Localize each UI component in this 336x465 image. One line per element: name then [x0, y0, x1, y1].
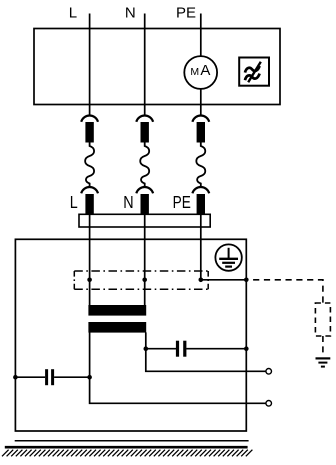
connector bottom L: plug pin [85, 194, 93, 214]
connector top PE: plug pin [197, 122, 205, 143]
wire L (supply drop) [89, 14, 91, 117]
connector bottom PE: plug pin [197, 194, 205, 214]
impedance Z (dashed rectangle) [315, 303, 330, 336]
transformer T1 secondary winding [88, 322, 146, 333]
connector top L: socket arc [81, 116, 98, 122]
connector top N: plug pin [141, 122, 149, 143]
svg-text:PE: PE [173, 193, 191, 212]
dashed wire Z to earth [322, 336, 324, 356]
svg-text:N: N [125, 5, 136, 22]
wire PE (strip to earth node) [200, 214, 202, 280]
wire capacitor C1 branch left part [15, 376, 45, 378]
wire PE to enclosure wall [201, 279, 247, 281]
earth plane hatching [2, 450, 252, 457]
junction dot N at screen [142, 278, 147, 283]
dashed earth connection (external) [249, 280, 323, 303]
transformer T1 primary winding [88, 305, 146, 316]
svg-text:L: L [70, 194, 78, 213]
capacitor C2 plates [178, 341, 185, 357]
output terminal upper [266, 369, 272, 375]
wire capacitor C2 branch left part [146, 348, 177, 350]
junction dot C1 at enclosure left [13, 375, 18, 380]
screen (dash-dot box) [74, 271, 208, 289]
earth plane upper line [15, 440, 249, 442]
junction dot C2 at enclosure [244, 346, 249, 351]
output terminal lower [266, 401, 272, 407]
svg-text:L: L [69, 5, 77, 22]
earth plane lower line [5, 446, 248, 449]
flexible cable N [140, 143, 149, 187]
flexible cable L [85, 143, 94, 187]
junction dot PE at enclosure [244, 278, 249, 283]
junction dot C1 at secondary wire [87, 375, 92, 380]
wire N (strip to transformer primary) [144, 214, 146, 307]
connector bottom PE: socket arc [192, 187, 209, 193]
junction dot L at screen [87, 278, 92, 283]
wire capacitor C2 branch right part [186, 348, 246, 350]
junction dot secondary right branch [144, 346, 149, 351]
equipment enclosure [15, 239, 246, 431]
connector bottom N: socket arc [136, 187, 153, 193]
wire PE (below meter) [200, 89, 202, 116]
wire L (strip to transformer primary) [89, 214, 91, 307]
flexible cable PE [196, 143, 205, 187]
wire PE (supply drop, above meter) [200, 14, 202, 57]
connector bottom N: plug pin [141, 194, 149, 214]
measuring equipment box [34, 29, 280, 105]
connector bottom L: socket arc [81, 187, 98, 193]
connector top PE: socket arc [192, 116, 209, 122]
milliammeter mA [184, 56, 217, 89]
filter symbol U1 [239, 58, 269, 86]
terminal strip / outlet block [79, 214, 210, 227]
protective earth terminal symbol [215, 244, 241, 270]
wire secondary left (down) [90, 332, 266, 403]
wire secondary right (down) [146, 332, 266, 371]
earth symbol (external reference) [316, 358, 331, 366]
junction dot PE at screen [199, 278, 204, 283]
wire capacitor C1 branch right part [54, 376, 90, 378]
svg-text:PE: PE [176, 5, 196, 22]
svg-text:N: N [123, 194, 133, 213]
connector top N: socket arc [136, 116, 153, 122]
connector top L: plug pin [85, 122, 93, 143]
wire N (supply drop) [144, 14, 146, 117]
capacitor C1 plates [47, 369, 53, 385]
